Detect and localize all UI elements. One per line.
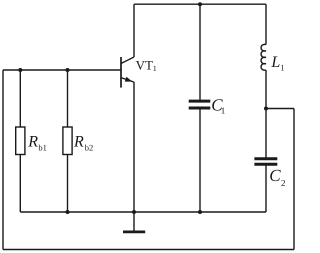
wire right outer bbox=[293, 109, 295, 250]
node bus / Rb2 bbox=[66, 210, 70, 214]
capacitor C1 bbox=[189, 101, 211, 108]
wire C1 bottom lead bbox=[199, 109, 201, 212]
ground bbox=[133, 212, 135, 231]
wire base lead bbox=[3, 69, 121, 71]
transistor VT1 bbox=[121, 57, 134, 88]
svg-text:2: 2 bbox=[281, 178, 286, 188]
node base / Rb1 bbox=[18, 68, 22, 72]
wire Rb1 bottom lead bbox=[19, 155, 21, 213]
node bus / C1 bbox=[198, 210, 202, 214]
svg-text:VT: VT bbox=[136, 58, 153, 73]
node top rail / C1 bbox=[198, 2, 202, 6]
svg-text:L: L bbox=[270, 54, 280, 71]
svg-text:1: 1 bbox=[153, 64, 157, 73]
wire emitter lead bbox=[133, 82, 135, 212]
svg-text:C: C bbox=[269, 166, 281, 185]
node bus / emitter-ground bbox=[132, 210, 136, 214]
wire top rail bbox=[134, 3, 266, 5]
wire C2 bottom lead bbox=[265, 166, 267, 213]
wire collector lead bbox=[133, 4, 135, 57]
wire ground bus bbox=[20, 211, 266, 213]
wire L1/C2 tap to right outer bbox=[266, 108, 294, 110]
svg-text:b2: b2 bbox=[85, 142, 94, 152]
wire C1 top lead bbox=[199, 4, 201, 100]
wire left outer bbox=[2, 70, 4, 250]
resistor Rb1 bbox=[16, 127, 25, 155]
transistor emitter arrow bbox=[125, 77, 132, 82]
wire L1 bottom to C2 top bbox=[265, 70, 267, 158]
wire right vertical top (rail to L1) bbox=[265, 4, 267, 44]
wire Rb2 top lead bbox=[67, 70, 69, 127]
node L1 / C2 tap bbox=[264, 107, 268, 111]
svg-text:1: 1 bbox=[221, 106, 226, 116]
node base / Rb2 bbox=[66, 68, 70, 72]
wire Rb2 bottom lead bbox=[67, 155, 69, 213]
wire Rb1 top lead bbox=[19, 70, 21, 127]
capacitor C2 bbox=[254, 159, 277, 165]
svg-text:R: R bbox=[73, 134, 84, 151]
svg-text:R: R bbox=[27, 134, 38, 151]
resistor Rb2 bbox=[63, 127, 72, 155]
wire bottom outer bbox=[3, 249, 294, 251]
inductor L1 bbox=[261, 44, 266, 70]
svg-text:1: 1 bbox=[280, 63, 284, 73]
svg-text:b1: b1 bbox=[38, 142, 47, 152]
